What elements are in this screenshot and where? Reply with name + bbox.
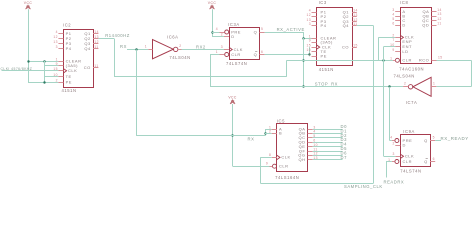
svg-text:3: 3 <box>221 45 223 49</box>
junction node RX <box>135 48 137 50</box>
wire VCC2 to FF1 D <box>212 36 224 38</box>
svg-text:VCC: VCC <box>24 1 33 5</box>
svg-text:Q4: Q4 <box>84 46 91 51</box>
wire VCC bus vertical branch <box>44 61 46 82</box>
svg-text:SAMPLING_CLK: SAMPLING_CLK <box>344 184 383 189</box>
net labels D0-D7 <box>341 124 348 160</box>
svg-text:4: 4 <box>309 9 311 13</box>
wire FF2 Q out <box>435 140 441 142</box>
svg-text:13: 13 <box>437 12 442 16</box>
svg-text:CO: CO <box>84 65 91 70</box>
FF2 left pin stubs <box>388 136 400 164</box>
wire sampling clock bottom run <box>260 183 373 185</box>
wire Q-bar up to IC3 CLK <box>309 47 311 56</box>
svg-text:15: 15 <box>53 67 58 71</box>
counter IC8 74AC160N body <box>399 0 431 71</box>
svg-text:(3A5): (3A5) <box>66 63 79 68</box>
svg-text:74LS74N: 74LS74N <box>400 168 421 173</box>
svg-text:2: 2 <box>393 142 395 146</box>
wire R14400HZ long run <box>114 76 287 78</box>
svg-text:VCC: VCC <box>208 1 217 5</box>
svg-text:P4: P4 <box>321 23 327 28</box>
svg-text:2: 2 <box>56 79 58 83</box>
svg-text:CLR: CLR <box>279 164 289 169</box>
svg-text:13: 13 <box>53 40 58 44</box>
net label CLKI 4576/38KHZ <box>1 67 33 71</box>
wire FF1 Q-bar right <box>265 54 310 56</box>
IC6A pin stubs 1 and 2 <box>145 44 182 50</box>
wire clear-net drop vertical <box>303 38 305 87</box>
svg-text:RX: RX <box>120 44 127 49</box>
net label R14400HZ <box>105 33 130 38</box>
svg-text:9: 9 <box>309 39 311 43</box>
svg-text:PE: PE <box>321 54 327 59</box>
IC2 right pin stubs with pin numbers <box>93 30 99 68</box>
junction VCC2 at PRE row <box>211 31 213 33</box>
svg-text:12: 12 <box>306 13 311 17</box>
svg-text:CLR: CLR <box>231 52 241 57</box>
svg-text:IC3A: IC3A <box>228 22 240 27</box>
junction clear-drop on W60 <box>302 59 304 61</box>
svg-text:Q: Q <box>424 159 428 164</box>
wire V_C drop to FF2 CLK <box>383 47 385 157</box>
svg-text:15: 15 <box>353 43 358 47</box>
svg-text:PE: PE <box>66 80 72 85</box>
wire R14400HZ vertical <box>114 39 116 77</box>
IC5 left pin stubs <box>266 125 277 168</box>
svg-text:4: 4 <box>216 27 218 31</box>
svg-text:1: 1 <box>390 57 392 61</box>
svg-text:1: 1 <box>216 50 218 54</box>
svg-text:CO: CO <box>342 44 349 49</box>
FF2 right pin stubs <box>430 136 435 162</box>
junction W60 / FF2 clk drop <box>382 59 384 61</box>
svg-text:12: 12 <box>353 18 358 22</box>
svg-text:VCC: VCC <box>228 96 237 100</box>
svg-text:14: 14 <box>353 9 358 13</box>
svg-text:Q: Q <box>424 138 428 143</box>
svg-text:13: 13 <box>306 18 311 22</box>
IC3 right pin stubs with numbers <box>352 9 358 48</box>
svg-text:15: 15 <box>438 56 443 60</box>
svg-text:10: 10 <box>53 73 58 77</box>
flip-flop IC9A 74LS74N body <box>400 129 430 173</box>
net label RX <box>120 44 127 49</box>
svg-text:4: 4 <box>392 12 394 16</box>
svg-text:RX_READY: RX_READY <box>441 136 469 141</box>
IC8 left pin stubs with numbers <box>390 8 400 62</box>
net label READRX <box>384 179 405 184</box>
svg-text:IC6A: IC6A <box>167 35 179 40</box>
svg-text:CLK: CLK <box>281 155 290 160</box>
FF1 right pin stubs Q and Q-bar <box>260 27 265 54</box>
svg-text:13: 13 <box>94 35 99 39</box>
shift register IC5 74LS164N body <box>275 119 307 180</box>
svg-text:5: 5 <box>392 17 394 21</box>
wire RCO down right edge <box>471 60 473 87</box>
wire IC3 Q4 right <box>357 25 374 27</box>
svg-text:74LS164N: 74LS164N <box>275 175 299 180</box>
IC3 left pin stubs with numbers <box>306 9 316 57</box>
wire clock input to IC2 CLK <box>2 70 59 72</box>
wire VCC1 down <box>28 9 30 82</box>
svg-text:LD: LD <box>402 49 408 54</box>
wire counter CLK feeder horizontal <box>378 37 395 39</box>
svg-text:11: 11 <box>94 45 98 49</box>
power VCC symbol (left) <box>24 1 33 9</box>
wire FF1 CLR down to STOP_RX <box>210 55 212 87</box>
junction RX_ACTIVE / clear drop <box>302 37 304 39</box>
wire RX data up to A/B <box>265 129 267 136</box>
svg-text:2: 2 <box>392 34 394 38</box>
svg-text:1: 1 <box>145 44 147 48</box>
inverter IC7A 74LS04N <box>394 74 432 106</box>
net label RX2 <box>196 44 206 49</box>
flip-flop IC3A 74LS74N body <box>226 22 260 66</box>
wire FF1 CLR left <box>210 54 220 56</box>
svg-text:CLK: CLK <box>68 68 77 73</box>
svg-text:6: 6 <box>261 50 263 54</box>
net label RX_READY <box>441 136 469 141</box>
svg-text:14: 14 <box>437 8 442 12</box>
wire inverter output to FF1 CLK <box>182 49 225 51</box>
wire RCO to IC7A input <box>436 86 471 88</box>
wire VCC3 down <box>232 104 234 166</box>
svg-text:9: 9 <box>266 161 268 165</box>
svg-text:10: 10 <box>306 48 311 52</box>
net label SAMPLING_CLK <box>344 184 383 189</box>
svg-text:IC3: IC3 <box>319 0 327 5</box>
svg-text:8: 8 <box>269 153 271 157</box>
wire counter ENT feeder horizontal <box>384 46 396 48</box>
svg-text:READRX: READRX <box>384 179 405 184</box>
svg-text:RX_ACTIVE: RX_ACTIVE <box>277 27 305 32</box>
inverter IC6A 74LS04N <box>153 35 191 61</box>
svg-text:4151N: 4151N <box>319 67 334 72</box>
svg-text:D7: D7 <box>341 155 348 160</box>
svg-text:4151N: 4151N <box>62 88 77 93</box>
svg-text:CLR: CLR <box>403 159 413 164</box>
power VCC symbol (bottom middle) <box>228 96 237 104</box>
svg-text:2: 2 <box>179 44 181 48</box>
wire branch to IC2 TE pin <box>45 76 59 78</box>
wire VCC2 down <box>212 9 214 36</box>
junction on VCC bus left <box>27 60 29 62</box>
svg-text:QH: QH <box>298 157 305 162</box>
wire RX data run <box>136 135 265 137</box>
wire RX_ACTIVE step down <box>303 32 305 38</box>
junction Q-bar bus <box>308 53 310 55</box>
svg-text:TE: TE <box>66 74 72 79</box>
wire VCC2 to FF1 PRE <box>212 32 220 34</box>
svg-text:CLR: CLR <box>402 58 412 63</box>
svg-text:15: 15 <box>306 43 311 47</box>
IC7A pin stubs <box>403 82 436 87</box>
wire V_D drop to FF2 PRE <box>389 87 391 141</box>
svg-text:2: 2 <box>404 82 406 86</box>
svg-text:2: 2 <box>269 130 271 134</box>
junction STOP_RX / FF2 PRE drop <box>388 85 390 87</box>
junction on PE wire <box>43 81 45 83</box>
IC8 right pin stubs with numbers <box>432 8 443 61</box>
junction on VCC bus mid <box>43 60 45 62</box>
wire V_C to FF2 CLK stub <box>384 156 396 158</box>
svg-text:9: 9 <box>56 62 58 66</box>
junction VCC3 on RX data wire <box>231 134 233 136</box>
svg-text:IC7A: IC7A <box>406 100 418 105</box>
wire READRX stub down <box>386 162 388 178</box>
net label STOP_RX <box>315 81 338 86</box>
wire R14400HZ rise to counter-clear net <box>286 60 288 76</box>
svg-text:IC2: IC2 <box>63 22 71 27</box>
svg-text:D: D <box>231 34 234 39</box>
svg-text:B: B <box>279 131 282 136</box>
net label RX_ACTIVE <box>277 27 305 32</box>
junction A/B tie <box>264 132 266 134</box>
svg-text:4: 4 <box>390 136 392 140</box>
svg-text:2: 2 <box>309 53 311 57</box>
wire sampling clock vertical V_B <box>373 26 375 183</box>
svg-text:1: 1 <box>269 125 271 129</box>
svg-text:Q: Q <box>254 29 258 34</box>
wire RCO right <box>437 60 472 62</box>
svg-text:RX2: RX2 <box>196 44 206 49</box>
wire RX_ACTIVE from FF1 Q <box>265 32 304 34</box>
op-amp IC2 counter 4151N body <box>62 22 94 93</box>
svg-text:IC8: IC8 <box>400 0 408 5</box>
svg-text:12: 12 <box>437 17 442 21</box>
svg-text:6: 6 <box>392 22 394 26</box>
wire W60 to 74AC160 CLR <box>287 60 395 62</box>
counter IC3 4151N body <box>317 0 353 72</box>
net label RX (data) <box>248 136 255 141</box>
svg-text:D: D <box>403 143 406 148</box>
wire R14400HZ horizontal from Q2 <box>98 38 114 40</box>
svg-text:3: 3 <box>309 22 311 26</box>
svg-text:9: 9 <box>392 48 394 52</box>
svg-text:1: 1 <box>433 82 435 86</box>
svg-text:1: 1 <box>309 34 311 38</box>
svg-text:6: 6 <box>433 157 435 161</box>
svg-text:5: 5 <box>261 27 263 31</box>
svg-text:IC9A: IC9A <box>403 129 415 134</box>
junction clear-drop on STOP_RX <box>302 85 304 87</box>
wire FF2 CLR left <box>386 161 392 163</box>
wire VCC bus to IC2 CLEAR pin <box>28 61 58 63</box>
svg-text:5: 5 <box>433 136 435 140</box>
svg-text:12: 12 <box>53 35 58 39</box>
svg-text:D: D <box>402 23 405 28</box>
svg-text:11: 11 <box>94 64 98 68</box>
wire VCC3 to IC5 CLR <box>233 166 270 168</box>
svg-text:Q4: Q4 <box>343 23 350 28</box>
wire branch to IC2 (3A5) pin <box>45 65 59 67</box>
svg-text:74AC160N: 74AC160N <box>399 66 424 71</box>
wire RX_ACTIVE to IC3 CLEAR <box>304 38 312 40</box>
svg-text:14: 14 <box>94 30 99 34</box>
wire RX to inverter input <box>127 49 148 51</box>
power VCC symbol (middle top) <box>208 1 217 9</box>
wire IC5 CLK drop <box>260 157 262 183</box>
svg-text:3: 3 <box>313 125 315 129</box>
IC2 left pin stubs with pin numbers <box>53 30 63 83</box>
wire IC5 CLK left <box>260 157 272 159</box>
svg-text:6: 6 <box>313 139 315 143</box>
svg-text:74LS74N: 74LS74N <box>226 61 247 66</box>
svg-text:4: 4 <box>56 30 58 34</box>
svg-text:13: 13 <box>353 13 358 17</box>
wire VCC bus to IC2 PE pin <box>28 82 58 84</box>
svg-text:7: 7 <box>392 38 394 42</box>
IC5 right pin stubs with numbers <box>308 125 318 160</box>
wire STOP_RX long run <box>210 86 403 88</box>
wire to IC5 pin B <box>265 133 272 135</box>
svg-text:R14400HZ: R14400HZ <box>105 33 130 38</box>
FF1 left pin stubs PRE D CLK CLR <box>216 27 229 56</box>
svg-text:IC5: IC5 <box>277 119 285 124</box>
wire V_D to FF2 PRE stub <box>390 140 392 142</box>
svg-text:3: 3 <box>393 152 395 156</box>
svg-text:10: 10 <box>390 43 395 47</box>
wires IC5 outputs QA-QH <box>313 130 343 160</box>
svg-text:3: 3 <box>392 8 394 12</box>
svg-text:STOP_RX: STOP_RX <box>315 81 338 86</box>
wire RX drop to shift register <box>136 50 138 136</box>
wire to IC5 pin A <box>265 129 272 131</box>
wire counter CLK feeder vertical <box>378 37 380 60</box>
svg-text:74LS04N: 74LS04N <box>169 55 190 60</box>
svg-text:12: 12 <box>94 40 99 44</box>
svg-text:RX: RX <box>248 136 255 141</box>
svg-text:QD: QD <box>422 23 429 28</box>
svg-text:1: 1 <box>56 57 58 61</box>
svg-text:2: 2 <box>221 32 223 36</box>
svg-text:RCO: RCO <box>419 58 429 63</box>
svg-text:11: 11 <box>313 147 317 151</box>
svg-text:P4: P4 <box>66 46 72 51</box>
svg-text:3: 3 <box>56 45 58 49</box>
svg-text:74LS04N: 74LS04N <box>394 74 415 79</box>
svg-text:11: 11 <box>437 21 441 25</box>
svg-text:Q: Q <box>254 52 258 57</box>
